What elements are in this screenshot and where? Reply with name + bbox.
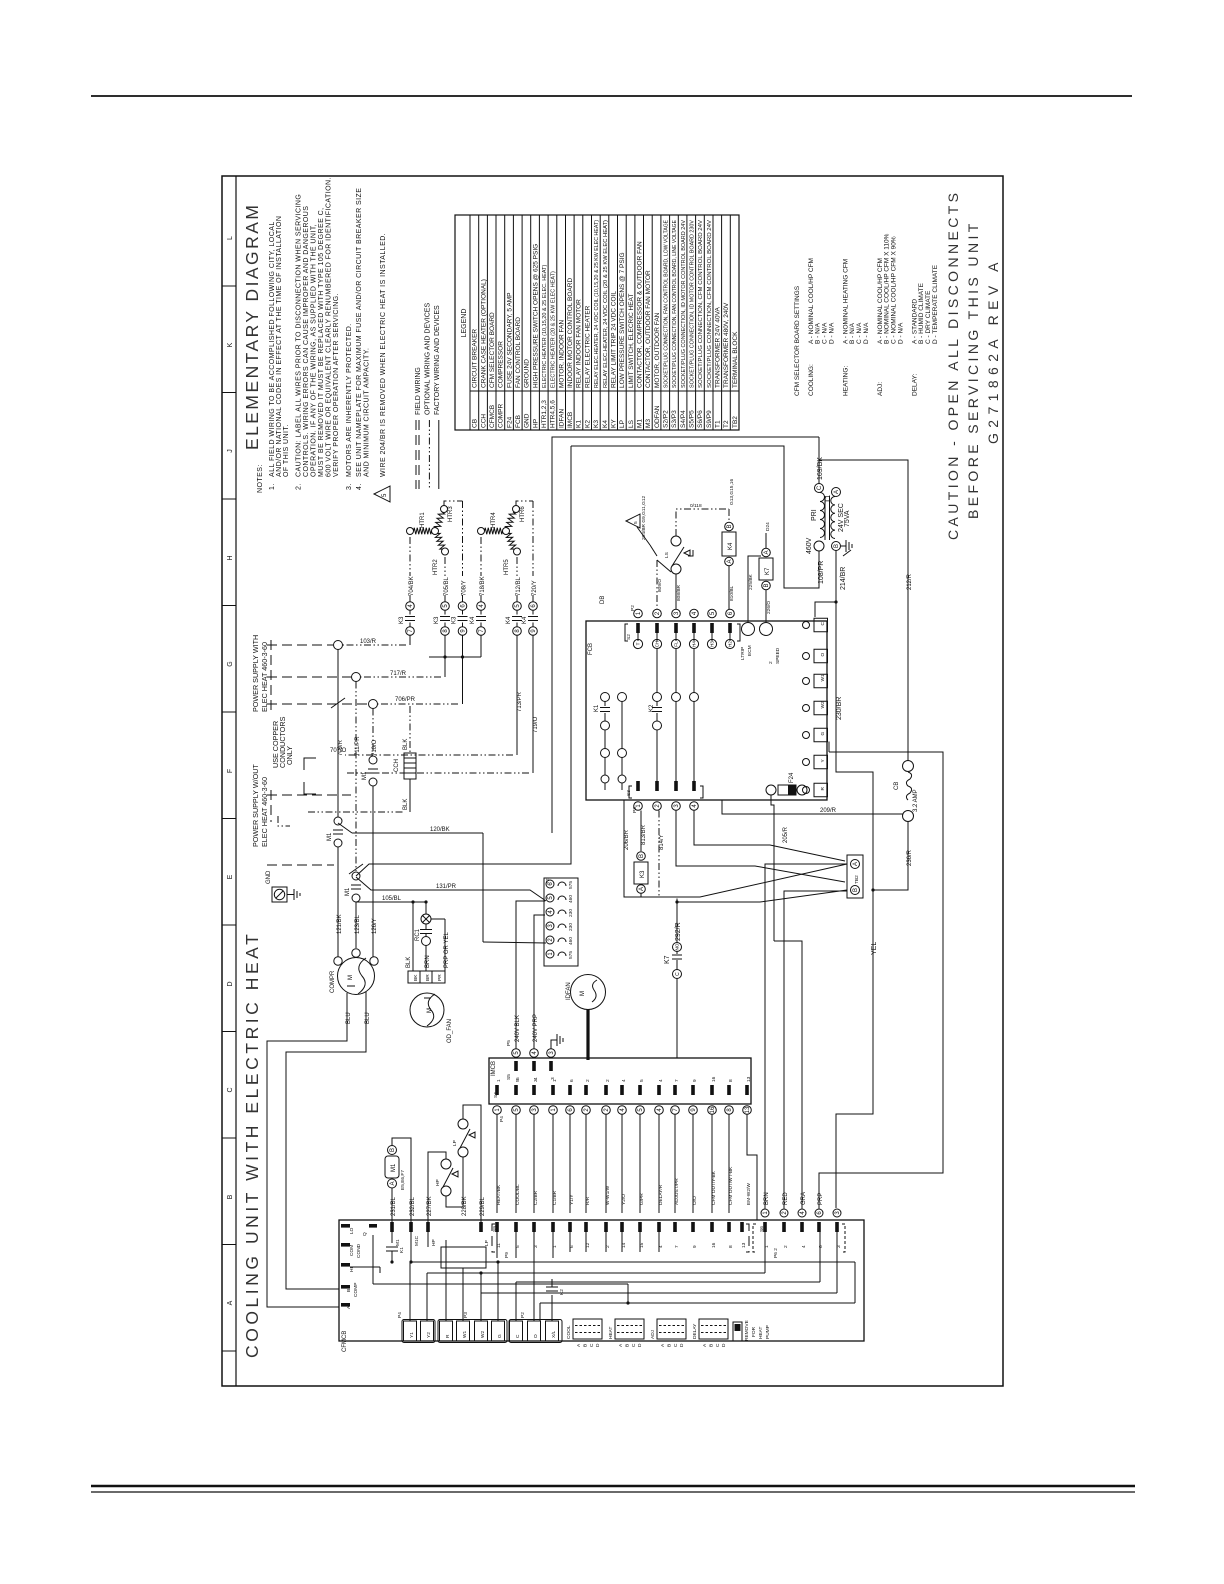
svg-text:K4: K4 [602,420,609,428]
svg-text:705/BL: 705/BL [444,576,450,596]
limit switch LS [671,536,681,546]
svg-text:230: 230 [568,923,574,931]
svg-text:OPTIONAL WIRING AND DEVICES: OPTIONAL WIRING AND DEVICES [424,303,431,415]
pin S9-14 [620,1222,624,1232]
factory wiring sample [438,420,440,489]
svg-text:O/O: O/O [692,1196,698,1205]
svg-text:240V BLK: 240V BLK [515,1015,521,1042]
svg-text:AND/OR NATIONAL CODES IN EFFEC: AND/OR NATIONAL CODES IN EFFECT AT THE T… [276,216,283,477]
pin S9-5 [514,1222,518,1232]
svg-text:MOTOR, INDOOR FAN: MOTOR, INDOOR FAN [558,320,565,388]
notes block [257,177,390,502]
svg-text:COOLING:: COOLING: [808,364,815,396]
svg-text:Y2/O: Y2/O [621,1194,627,1205]
svg-text:HTR1,2,3: HTR1,2,3 [541,400,548,428]
svg-text:K3: K3 [593,420,600,428]
pin P5-5 [514,1061,518,1071]
svg-text:BK: BK [413,974,419,981]
svg-text:LO: LO [349,1227,355,1234]
svg-text:P9: P9 [504,1252,510,1258]
pin S9-2 [604,1222,608,1232]
resistor HTR3 [441,506,448,513]
svg-text:RELAY ELECTRIC HEATER: RELAY ELECTRIC HEATER [584,305,591,388]
wiring style legend [415,303,441,489]
svg-text:B: B [390,1148,396,1152]
svg-text:M: M [348,975,354,980]
svg-text:717/R: 717/R [390,671,407,677]
svg-text:711/PR: 711/PR [355,736,361,756]
svg-text:TRANSFORMER 24V 40VA: TRANSFORMER 24V 40VA [715,307,722,388]
svg-text:126/Y: 126/Y [372,918,378,934]
terminal W1 [814,674,828,688]
svg-text:P5: P5 [506,1040,512,1046]
svg-text:5: 5 [639,1079,645,1082]
pin S2-2 [653,609,662,618]
svg-text:0/118: 0/118 [690,503,702,509]
page top rule [91,95,1132,97]
svg-text:460V: 460V [806,537,813,554]
svg-text:B: B [624,1344,630,1347]
svg-text:720/Y: 720/Y [532,580,538,596]
svg-text:COMPRESSOR: COMPRESSOR [498,341,505,388]
pin P4-5 wire COOL/BL [514,1085,518,1095]
svg-text:13: 13 [745,1106,751,1113]
svg-text:P3: P3 [463,1312,469,1318]
svg-text:ELECTRIC HEATER (20 & 25 KW EL: ELECTRIC HEATER (20 & 25 KW ELEC HEAT) [551,271,557,388]
svg-text:PRI: PRI [811,509,818,521]
svg-text:K2: K2 [559,1289,565,1295]
svg-text:F: F [227,769,234,773]
svg-text:RELAY LIMIT TRIP 24 VDC COIL: RELAY LIMIT TRIP 24 VDC COIL [610,291,617,388]
svg-text:4: 4 [621,1079,627,1082]
motor ODFAN terminal strip [408,971,445,983]
LTRIP ECM circle [742,623,755,636]
wire 240V BLK [516,901,545,1049]
wire 103/R [409,636,411,646]
svg-text:CH: CH [655,641,660,648]
terminal W2 [475,1321,488,1341]
svg-text:B: B [764,583,770,587]
svg-text:5: 5 [382,493,388,497]
svg-text:CFM OUT/Y-BK: CFM OUT/Y-BK [711,1170,717,1205]
coil box [441,1247,486,1268]
svg-text:X/L: X/L [551,1330,557,1338]
svg-text:C: C [675,972,681,976]
svg-text:8: 8 [728,1245,734,1248]
svg-text:LOW PRESSURE SWITCH OPENS @ 7: LOW PRESSURE SWITCH OPENS @ 7 PSIG [619,252,626,388]
CFMCB internal wires [409,1262,411,1321]
wire 227/BK [428,1152,446,1222]
wire 808/BR [675,574,677,609]
svg-text:C: C [715,1343,721,1347]
svg-text:C2/BR: C2/BR [533,1190,539,1205]
wire CCH return [308,811,405,813]
svg-text:226/O: 226/O [766,601,772,614]
svg-text:VERIFY PROPER OPERATION AFTER: VERIFY PROPER OPERATION AFTER SERVICING. [333,293,340,477]
svg-text:ECM: ECM [747,645,753,656]
wire 212/R [819,460,908,761]
contactor contact M1 (3) [369,756,377,764]
pressure switch HP [441,1159,451,1169]
svg-text:IDFAN: IDFAN [558,409,565,428]
pin T2-4 [546,908,554,916]
svg-text:M: M [580,991,586,996]
svg-text:O: O [820,653,826,657]
svg-text:RELAY ELEC.HEATER, 24 VDC COIL: RELAY ELEC.HEATER, 24 VDC COIL (10,15,20… [594,220,600,388]
svg-text:COMPR: COMPR [330,970,336,993]
svg-text:M1C: M1C [414,1235,420,1246]
terminal R [814,783,828,797]
wire 205/R [771,795,774,941]
svg-text:IMCB: IMCB [567,412,574,428]
svg-text:16: 16 [711,1242,717,1248]
wire BLU 1 [267,993,347,1307]
relay contact K4 [477,602,486,611]
wire PRP [819,752,943,1209]
svg-text:BLK: BLK [403,739,409,750]
wire 231/BL [391,1188,393,1222]
svg-text:575: 575 [568,881,574,889]
connector group boxes P4 P3 P2 [402,1320,435,1343]
svg-text:CFMCB: CFMCB [342,1331,348,1352]
pin P4-2 wire W-W1/W [604,1085,608,1095]
svg-text:P2: P2 [520,1312,526,1318]
terminal O [814,649,828,663]
pin P4-6 wire Y1/Y [568,1085,572,1095]
wire HTR6 to 720/Y [516,501,533,506]
svg-text:4: 4 [801,1245,807,1248]
svg-text:K3: K3 [399,616,405,624]
note 5 warning triangle [374,486,390,502]
svg-text:FIELD WIRING: FIELD WIRING [415,367,422,415]
svg-text:S4/P4: S4/P4 [680,410,687,428]
wire 708/Y [462,501,464,576]
svg-text:FCB: FCB [588,643,594,655]
2 SPEED circle [760,623,773,636]
bracket [304,758,316,770]
svg-text:A: A [390,1181,396,1185]
svg-text:810/BL: 810/BL [729,585,735,601]
svg-text:G: G [497,1334,503,1338]
svg-text:DELAY:: DELAY: [911,374,918,396]
svg-text:SOCKET/PLUG CONNECTION, CFM CO: SOCKET/PLUG CONNECTION, CFM CONTROL BOAR… [707,220,713,388]
relay contact K1 [391,1232,393,1243]
svg-text:5: 5 [515,1079,521,1082]
svg-text:706/PR: 706/PR [395,697,416,703]
svg-text:ELEMENTARY DIAGRAM: ELEMENTARY DIAGRAM [242,203,262,450]
svg-text:C: C [631,1343,637,1347]
wire 214/BR [836,551,873,1209]
svg-text:FUSE 24V SECONDARY, 5 AMP: FUSE 24V SECONDARY, 5 AMP [506,293,513,389]
svg-text:6: 6 [569,1079,575,1082]
svg-text:S2/P2: S2/P2 [663,410,670,428]
svg-text:CONTACTOR, OUTDOOR FAN MOTOR: CONTACTOR, OUTDOOR FAN MOTOR [645,270,652,388]
transformer T1 [815,484,824,493]
pin LP [479,1222,483,1232]
wire K7 to TB2 [677,890,847,902]
svg-text:3: 3 [533,1079,539,1082]
svg-text:231/BL: 231/BL [391,1196,397,1216]
wire 240V PRP [534,915,545,1049]
svg-text:SOCKET/PLUG CONNECTION, ID MOT: SOCKET/PLUG CONNECTION, ID MOTOR CONTROL… [681,220,687,388]
svg-text:SOCKET/PLUG CONNECTION, FAN CO: SOCKET/PLUG CONNECTION, FAN CONTROL BOAR… [664,220,670,388]
relay contact K7 [676,899,678,943]
svg-text:FL: FL [674,641,679,647]
zone letters [227,236,234,1305]
svg-text:3.2 AMP: 3.2 AMP [913,789,919,812]
pin S9-11 [495,1222,499,1232]
svg-text:CAUTION: LABEL ALL WIRES PRIOR: CAUTION: LABEL ALL WIRES PRIOR TO DISCON… [296,194,303,477]
svg-text:TRANSFORMER 480V, 240V: TRANSFORMER 480V, 240V [723,302,730,388]
svg-text:YEL: YEL [871,942,878,955]
wire 706/PR [462,636,464,705]
wire 814/Y [658,811,660,898]
svg-text:D24: D24 [765,522,771,531]
svg-text:240V PRP: 240V PRP [533,1014,539,1042]
terminal O [528,1321,541,1341]
relay contact K3 [406,602,415,611]
svg-text:RELAY ELEC.HEATER, 24 VDC COIL: RELAY ELEC.HEATER, 24 VDC COIL (20 & 25 … [603,220,609,388]
svg-text:HTR1: HTR1 [420,512,426,528]
svg-text:LS: LS [664,552,670,558]
svg-text:O: O [533,1334,539,1338]
relay contact K4 [513,602,522,611]
svg-text:Y2: Y2 [426,1332,432,1338]
svg-text:G: G [820,732,826,736]
svg-text:HP: HP [435,1179,441,1186]
svg-text:COOL/BL: COOL/BL [515,1184,521,1205]
svg-text:S3/P3: S3/P3 [671,410,678,428]
svg-text:HIGH PRESSURE SWITCH OPENS @ 6: HIGH PRESSURE SWITCH OPENS @ 625 PSIG [532,244,539,388]
pin P5-4 [532,1061,536,1071]
wire 228/BK [446,1157,463,1207]
svg-text:K4: K4 [506,616,512,624]
svg-text:PRP OR YEL: PRP OR YEL [444,932,450,968]
wire 707/O [516,636,518,756]
pin T2-5 [546,894,554,902]
wire 704/BK [409,537,411,576]
svg-text:REMOVE: REMOVE [744,1320,750,1341]
svg-text:OD_FAN: OD_FAN [447,1019,453,1043]
svg-text:205/R: 205/R [783,826,789,843]
svg-text:F24: F24 [789,772,795,783]
pin T2-3 [546,922,554,930]
svg-text:CB: CB [472,419,479,428]
svg-text:T1: T1 [715,420,722,428]
wire 229/BL [463,1105,481,1222]
svg-text:S5/P5: S5/P5 [689,410,696,428]
wire 719/O [532,636,534,774]
crank case heater CCH [409,706,411,752]
svg-text:103/R: 103/R [360,639,377,645]
pin S2-4 [690,609,699,618]
svg-text:H3: H3 [710,641,715,647]
resistor HTR4 [478,528,485,535]
svg-text:M1: M1 [395,1239,401,1246]
pin P4-16 wire CFM OUT/Y-BK [710,1085,714,1095]
svg-text:713/PR: 713/PR [517,691,523,712]
svg-text:2: 2 [783,1245,789,1248]
svg-text:227/BK: 227/BK [427,1196,433,1216]
svg-text:K7: K7 [664,955,671,964]
svg-text:G13,G15,16: G13,G15,16 [729,479,735,505]
svg-text:CFMCB: CFMCB [489,405,496,428]
field wiring power supply lines [267,644,333,646]
wire HTR3 to 708/Y [444,501,463,506]
svg-text:LEGEND: LEGEND [461,309,468,338]
resistor HTR1 [407,528,414,535]
svg-text:J: J [227,449,234,453]
svg-text:A: A [727,559,733,563]
svg-text:2: 2 [768,661,774,664]
pin S6-3 wire [835,1222,839,1232]
svg-text:9: 9 [692,1245,698,1248]
svg-text:LP: LP [452,1140,458,1146]
page bottom double rule [91,1485,1135,1487]
svg-text:ADJ:: ADJ: [877,382,884,396]
relay contacts K2 inside FCB [656,702,658,707]
wire phase 2 [355,682,357,872]
svg-text:B: B [666,1344,672,1347]
svg-text:1: 1 [552,1079,558,1082]
svg-text:H2: H2 [728,641,733,647]
svg-text:1: 1 [496,1079,502,1082]
svg-text:D - TEMPERATE CLIMATE: D - TEMPERATE CLIMATE [932,264,939,344]
svg-text:B: B [639,854,645,858]
svg-text:105/BL: 105/BL [382,896,402,902]
pin P3-3 [674,781,678,791]
legend table [455,215,739,430]
svg-text:HI: HI [349,1267,355,1272]
relay coil K3 [640,811,642,852]
relay contact K2 [551,1295,553,1321]
svg-text:709/R: 709/R [338,739,344,756]
svg-text:2: 2 [605,1079,611,1082]
pin S6-2 wire RED [782,1222,786,1232]
svg-text:600 VOLT WIRE OR EQUIVALENT CL: 600 VOLT WIRE OR EQUIVALENT CLEARLY RENU… [326,177,333,477]
board CFMCB [339,1220,864,1341]
wire 720/Y [532,501,534,576]
svg-text:13: 13 [746,1076,752,1082]
pin P4-7 wire ADJUST/PR [673,1085,677,1095]
board IMCB [489,1058,751,1104]
svg-text:K2: K2 [584,420,591,428]
svg-text:4.: 4. [356,483,363,490]
svg-text:M1: M1 [391,1163,397,1172]
svg-text:C: C [820,622,826,626]
svg-text:BLU: BLU [365,1012,371,1024]
svg-text:813/BR: 813/BR [641,824,647,845]
svg-text:CONTROLS. WIRING ERRORS CAN C: CONTROLS. WIRING ERRORS CAN CAUSE IMPROP… [303,206,310,477]
svg-text:C: C [227,1087,234,1092]
svg-text:W1: W1 [820,674,826,682]
svg-text:K: K [227,342,234,347]
FCB internal wires [601,749,610,758]
svg-text:718/BK: 718/BK [480,576,486,596]
svg-text:E: E [227,874,234,879]
svg-text:P4: P4 [499,1116,505,1122]
svg-text:229/BL: 229/BL [480,1196,486,1216]
svg-text:CONTACTOR, COMPRESSOR & OUTDOO: CONTACTOR, COMPRESSOR & OUTDOOR FAN [637,241,644,388]
relay contact K3 [458,602,467,611]
svg-text:COM: COM [349,1245,355,1256]
svg-text:ELEC HEAT 460-3-60: ELEC HEAT 460-3-60 [260,777,269,847]
pin M1 [390,1222,394,1232]
svg-text:CFM SELECTOR BOARD: CFM SELECTOR BOARD [489,312,496,388]
svg-text:2: 2 [585,1079,591,1082]
terminal G [814,728,828,742]
svg-text:COND: COND [356,1243,362,1258]
svg-text:SOCKET/PLUG CONNECTION, CFM CO: SOCKET/PLUG CONNECTION, CFM CONTROL BOAR… [698,220,704,388]
svg-text:HTR5: HTR5 [504,559,510,575]
svg-text:HP: HP [431,1239,437,1246]
svg-text:IDFAN: IDFAN [566,982,572,1000]
wire PRP OR YEL [431,918,445,920]
pin S2-6 [726,609,735,618]
svg-text:BLU: BLU [346,1012,352,1024]
svg-text:D: D [721,1343,727,1347]
motor COMPR [338,958,375,995]
contactor contact M1 (1) [334,817,342,825]
svg-text:HTR4,5,6: HTR4,5,6 [550,400,557,428]
resistor HTR2 [442,548,449,555]
terminal C [814,618,828,632]
pin P4-1 wire HEAT/BK [495,1085,499,1095]
svg-text:13: 13 [741,1242,747,1248]
svg-text:C: C [515,1334,521,1338]
svg-text:G271862A REV A: G271862A REV A [985,257,1001,444]
pin T2-2 [546,936,554,944]
pin S9-7 [673,1222,677,1232]
pin S9-12 [584,1222,588,1232]
svg-text:292/R: 292/R [675,922,682,941]
svg-text:CFM OUT/WT-BK: CFM OUT/WT-BK [728,1166,734,1205]
pin P4-9 wire O/O [691,1085,695,1095]
svg-text:PR: PR [437,974,443,981]
svg-text:D - N/A: D - N/A [863,322,870,344]
svg-text:TB2: TB2 [854,875,860,884]
relay coil K4 [728,509,730,522]
svg-text:A: A [834,490,840,494]
svg-text:BRN: BRN [425,955,431,968]
svg-text:G: G [227,661,234,666]
svg-text:SEE UNIT NAMEPLATE FOR MAXIMUM: SEE UNIT NAMEPLATE FOR MAXIMUM FUSE AND/… [356,188,363,477]
pin S6-1 wire BRN [763,1222,767,1232]
svg-text:D - N/A: D - N/A [898,322,905,344]
drawing frame border [222,176,1003,1386]
svg-text:B: B [727,524,733,528]
field wiring sample [415,420,417,489]
svg-text:460: 460 [568,937,574,945]
svg-text:FAN CONTROL BOARD: FAN CONTROL BOARD [515,317,522,388]
svg-text:K4: K4 [728,542,734,550]
svg-text:P4: P4 [397,1312,403,1318]
svg-text:LP: LP [484,1240,490,1246]
svg-text:212/R: 212/R [907,573,913,590]
terminal Y1 [404,1321,417,1341]
svg-text:HEATING:: HEATING: [842,366,849,396]
svg-text:KY: KY [610,419,617,428]
terminal Y2 [421,1321,434,1341]
svg-text:8: 8 [728,1079,734,1082]
svg-text:COMPR: COMPR [498,404,505,429]
wire 712/BL [516,557,518,576]
CFM selector board settings text [794,233,939,396]
pin P4-2 wire R/R [584,1085,588,1095]
svg-text:RELAY INDOOR FAN MOTOR: RELAY INDOOR FAN MOTOR [576,299,583,388]
svg-text:225/BK: 225/BK [748,573,754,590]
contactor contact M1 (2) [352,872,360,880]
